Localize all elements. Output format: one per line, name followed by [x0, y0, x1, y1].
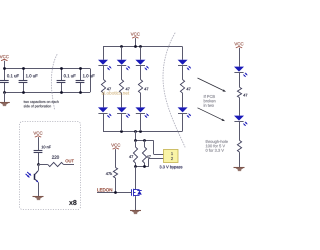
wire [38, 182, 40, 196]
wire [121, 47, 123, 60]
supply VCC (LED array) [131, 33, 140, 36]
wire to bypass pin 2 [149, 158, 164, 160]
label OUT [65, 159, 73, 162]
capacitor C4 1.0 uF [80, 69, 82, 81]
junction [3, 67, 6, 70]
wire [135, 167, 137, 189]
arrow (if PCB broken) lower [198, 108, 224, 120]
junction [60, 67, 63, 70]
wire [135, 131, 137, 140]
transistor Q1 N-MOSFET [131, 189, 133, 195]
watermark [102, 91, 129, 94]
supply VCC (broken-off strip) [234, 42, 243, 45]
wire [239, 98, 241, 116]
wire [115, 178, 117, 193]
capacitor C2 1.0 uF [23, 69, 25, 81]
wire [103, 113, 105, 131]
wire [239, 48, 241, 67]
wire to bypass pin 1 [153, 140, 155, 154]
resistor R1 47 [101, 80, 105, 94]
resistor R9 47k [113, 168, 117, 179]
wire [140, 93, 142, 107]
wire VCC rail [4, 68, 90, 70]
note: If PCB broken in two [204, 95, 215, 98]
arrow (if PCB broken) upper [198, 78, 225, 91]
wire bottom rail [103, 131, 183, 133]
ground (MOSFET) [130, 210, 141, 212]
junction [37, 163, 40, 166]
wire [121, 66, 123, 80]
wire LEDON net [97, 192, 132, 194]
resistor R8 47 [144, 140, 146, 147]
light arrows into phototransistor [27, 172, 31, 175]
wire [182, 93, 184, 107]
ground (capacitor bank) [4, 92, 6, 102]
resistor R2 47 [119, 80, 123, 94]
caption: two capacitors on each side of perforation [24, 100, 59, 103]
resistor R3 47 [138, 80, 142, 94]
connector J1 3.3V bypass (yellow box) [164, 150, 179, 163]
wire [90, 69, 92, 93]
ground (strip) [234, 167, 245, 169]
junction [134, 139, 137, 142]
wire GND rail [4, 92, 90, 94]
capacitor C3 0.1 uF [61, 69, 63, 81]
wire [239, 121, 241, 140]
LED D8 [178, 107, 188, 112]
LED D7 [178, 60, 188, 65]
junction [120, 130, 123, 133]
wire [140, 66, 142, 80]
wire [38, 164, 48, 166]
wire [140, 47, 142, 60]
label: 3.3 V bypass [160, 165, 183, 169]
wire [239, 152, 241, 167]
capacitor C1 0.1 uF [4, 69, 6, 81]
wire top rail [103, 46, 183, 48]
LED D5 [135, 60, 145, 65]
wire top bar [136, 140, 154, 142]
phototransistor Q2 [38, 164, 40, 171]
junction [120, 45, 123, 48]
wire [4, 61, 6, 69]
resistor R7 47 [135, 140, 137, 147]
junction [114, 191, 117, 194]
junction [79, 67, 82, 70]
wire OUT net [64, 164, 75, 166]
LED D6 [135, 107, 145, 112]
wire [38, 153, 40, 164]
wire [121, 113, 123, 131]
junction [134, 165, 137, 168]
wire [182, 66, 184, 80]
wire [135, 38, 137, 47]
wire [103, 47, 105, 60]
LED D10 [234, 116, 244, 121]
wire [115, 149, 117, 167]
LED D2 [98, 107, 108, 112]
wire [103, 93, 105, 107]
label x8 [69, 200, 77, 205]
resistor R5 47 [237, 87, 241, 97]
LED D9 [234, 67, 244, 72]
LED D3 [117, 60, 127, 65]
wire [121, 93, 123, 107]
LED D1 [98, 60, 108, 65]
supply VCC (LEDON pull-up) [111, 144, 120, 147]
junction [22, 67, 25, 70]
note: through-hole resistor value [206, 140, 228, 144]
perforation dashed curve (cap bank) [51, 55, 57, 111]
wire bottom bar [136, 166, 149, 168]
wire [182, 113, 184, 131]
wire [103, 66, 105, 80]
wire [140, 113, 142, 131]
ground (sensor cell) [33, 196, 44, 198]
LED D4 [117, 107, 127, 112]
wire [182, 47, 184, 60]
resistor R10 220 [48, 162, 64, 166]
supply VCC (sensor cell) [33, 132, 42, 135]
wire [38, 137, 40, 150]
label LEDON [97, 188, 112, 191]
dashed box (x8 cell) [20, 122, 81, 210]
wire [135, 197, 137, 211]
capacitor C5 10 nF [34, 150, 43, 152]
wire [239, 72, 241, 87]
resistor R6 through-hole [237, 140, 241, 152]
resistor R4 47 [180, 80, 184, 94]
supply VCC (capacitor bank) [0, 55, 9, 58]
perforation dashed curve (LED array) [163, 33, 185, 147]
